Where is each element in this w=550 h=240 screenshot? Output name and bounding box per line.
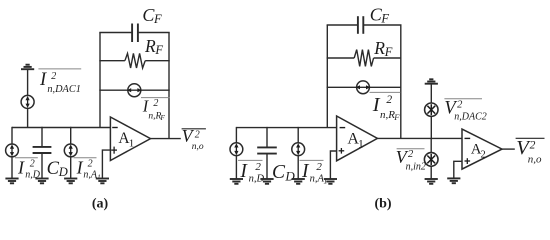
wire: I_n,D branch top (a)	[11, 127, 13, 144]
label A1 (b)	[347, 131, 364, 151]
wire: I_n,DAC1 source to bus (a)	[27, 108, 29, 127]
wire: A2 output (b)	[502, 148, 515, 150]
current source I_n,D (b)	[230, 143, 243, 156]
wire: I_n,A1 branch top (a)	[70, 127, 72, 144]
svg-text:I: I	[76, 157, 84, 177]
op-amp A1 (b)	[337, 116, 378, 161]
svg-text:2: 2	[30, 159, 35, 170]
current source I_n,A1 (a)	[64, 144, 77, 157]
svg-text:n,A: n,A	[83, 170, 98, 181]
current source I_n,DAC1 (a)	[21, 95, 34, 108]
label I2_n,A1 with overline (b)	[300, 160, 328, 185]
label R_F (a)	[144, 36, 163, 57]
svg-text:1: 1	[129, 138, 135, 150]
ground: I_n,D (a)	[5, 179, 18, 184]
svg-text:I: I	[17, 157, 25, 177]
svg-text:F: F	[393, 112, 400, 122]
wire: C_F branch left (b)	[327, 24, 358, 26]
wire: ground to I_n,DAC1 source (a)	[27, 69, 29, 95]
label I2_n,D with overline (a)	[15, 157, 41, 180]
minus sign A1 (a)	[112, 127, 118, 129]
current source I_n,RF (b)	[356, 81, 371, 94]
wire: C_D to ground (b)	[266, 155, 268, 179]
wire: noise branch (a)	[99, 89, 169, 91]
ground: top ground of I_n,DAC1 branch (a)	[21, 65, 34, 70]
wire: feedback right rail (b)	[400, 25, 402, 138]
plus sign A2 (b)	[465, 158, 471, 164]
wire: C_D branch top (b)	[266, 127, 268, 147]
svg-text:2: 2	[88, 159, 93, 170]
svg-text:C: C	[47, 159, 60, 179]
wire: I_n,A1 branch top (b)	[297, 127, 299, 143]
label I2_n,DAC1 with overline (a)	[38, 69, 81, 95]
wire: feedback left rail (b)	[326, 25, 328, 128]
svg-text:2: 2	[457, 100, 463, 111]
wire: input bus of A1 (b)	[236, 127, 336, 129]
voltage source V_n,DAC2 (b)	[425, 103, 438, 116]
wire: I_n,A1 source to ground (a)	[70, 157, 72, 178]
label V2_n,DAC2 with overline (b)	[444, 99, 486, 123]
svg-text:n,A: n,A	[310, 173, 325, 184]
svg-text:I: I	[39, 70, 47, 90]
label I2_n,RF with overline (a)	[141, 96, 170, 122]
capacitor C_D (a)	[33, 147, 52, 153]
ground: I_n,A1 (a)	[64, 179, 77, 184]
svg-text:F: F	[153, 12, 162, 26]
svg-text:n,o: n,o	[528, 153, 542, 165]
label I2_n,D with overline (b)	[238, 160, 264, 184]
svg-text:2: 2	[316, 161, 322, 173]
wire: I_n,D source to ground (b)	[235, 156, 237, 179]
svg-text:F: F	[154, 43, 163, 57]
minus sign A1 (b)	[340, 127, 346, 129]
svg-text:(a): (a)	[92, 197, 109, 212]
svg-text:I: I	[239, 161, 248, 182]
svg-text:D: D	[58, 165, 68, 179]
svg-text:2: 2	[408, 149, 414, 160]
label A1 (a)	[118, 130, 134, 150]
wire: feedback left rail (a)	[99, 33, 101, 128]
svg-text:C: C	[272, 162, 286, 183]
label C_D (a)	[47, 159, 68, 179]
wire: A1 output to A2 (b)	[377, 137, 462, 139]
wire: C_D branch top (a)	[41, 127, 43, 146]
label V2_n,o with overline (a)	[182, 126, 206, 152]
wire: I_n,A1 source to ground (b)	[297, 156, 299, 179]
current source I_n,A1 (b)	[292, 143, 305, 156]
ground: A2 + input (b)	[447, 178, 460, 183]
svg-text:F: F	[380, 11, 389, 25]
label A2 (b)	[471, 142, 486, 161]
plus sign A1 (a)	[111, 147, 117, 154]
wire: C_D to ground (a)	[41, 154, 43, 178]
svg-text:D: D	[284, 168, 295, 183]
capacitor C_F (b)	[358, 16, 363, 34]
label C_F (b)	[370, 4, 390, 25]
wire: feedback right rail (a)	[168, 33, 170, 139]
wire: + input to ground A1 (b)	[330, 151, 336, 179]
wire: V_n,in2 source to ground (b)	[430, 166, 432, 178]
svg-text:2: 2	[481, 150, 486, 161]
ground: C_D (a)	[35, 179, 48, 184]
plus sign A1 (b)	[339, 148, 345, 154]
label V2_n,o with overline (b)	[516, 137, 545, 165]
wire: noise branch (b)	[327, 86, 402, 88]
label I2_n,A1 with overline (a)	[74, 157, 101, 181]
wire: V_n,DAC2 source to bus (b)	[430, 116, 432, 138]
capacitor C_F (a)	[132, 24, 138, 43]
svg-text:n,DAC2: n,DAC2	[454, 112, 487, 123]
resistor R_F (a)	[99, 53, 169, 68]
svg-text:F: F	[159, 113, 165, 122]
wire: I_n,D source to ground (a)	[11, 157, 13, 178]
wire: C_F branch left (a)	[99, 32, 132, 34]
svg-text:2: 2	[386, 94, 392, 106]
capacitor C_D (b)	[257, 147, 277, 153]
ground: I_n,A1 (b)	[292, 179, 305, 184]
wire: C_F branch right (b)	[364, 24, 402, 26]
svg-text:2: 2	[255, 161, 261, 173]
svg-text:2: 2	[51, 71, 56, 82]
ground: C_D (b)	[260, 179, 273, 184]
minus sign A2 (b)	[465, 137, 471, 139]
wire: A1 output (a)	[151, 138, 181, 140]
svg-text:R: R	[144, 36, 156, 56]
wire: input bus of A1 (a)	[12, 127, 110, 129]
wire: bus to V_n,in2 source (b)	[430, 138, 432, 152]
ground: V_n,in2 (b)	[425, 179, 438, 184]
label V2_n,in2 with overline (b)	[396, 147, 426, 172]
label C_D (b)	[272, 162, 295, 183]
ground: A1 + input (b)	[324, 179, 337, 184]
label R_F (b)	[373, 38, 392, 59]
ground: top of V_n,DAC2 branch (b)	[425, 79, 438, 83]
svg-text:2: 2	[195, 129, 200, 140]
wire: C_F branch right (a)	[139, 32, 170, 34]
svg-text:1: 1	[358, 138, 364, 150]
op-amp A2 (b)	[462, 129, 502, 169]
voltage source V_n,in2 (b)	[424, 153, 438, 167]
wire: I_n,D branch top (b)	[235, 127, 237, 143]
current source I_n,D (a)	[6, 144, 19, 157]
svg-text:n,DAC1: n,DAC1	[47, 84, 80, 95]
svg-text:R: R	[373, 38, 385, 58]
svg-text:2: 2	[530, 140, 536, 152]
resistor R_F (b)	[327, 50, 402, 67]
svg-text:n,in2: n,in2	[406, 162, 426, 173]
svg-text:2: 2	[153, 98, 158, 109]
wire: + input to ground (a)	[102, 150, 110, 178]
ground: A1 + input (a)	[96, 179, 109, 184]
wire: ground to V_n,DAC2 source (b)	[430, 84, 432, 103]
svg-text:n,o: n,o	[192, 142, 204, 152]
svg-text:(b): (b)	[374, 197, 391, 212]
op-amp A1 (a)	[110, 117, 150, 161]
label C_F (a)	[142, 5, 162, 26]
svg-text:F: F	[384, 45, 393, 59]
ground: I_n,D (b)	[230, 179, 243, 184]
svg-text:n,R: n,R	[380, 109, 395, 121]
label I2_n,RF with overline (b)	[370, 92, 401, 121]
wire: + input to ground A2 (b)	[454, 161, 462, 178]
current source I_n,RF (a)	[127, 84, 142, 97]
